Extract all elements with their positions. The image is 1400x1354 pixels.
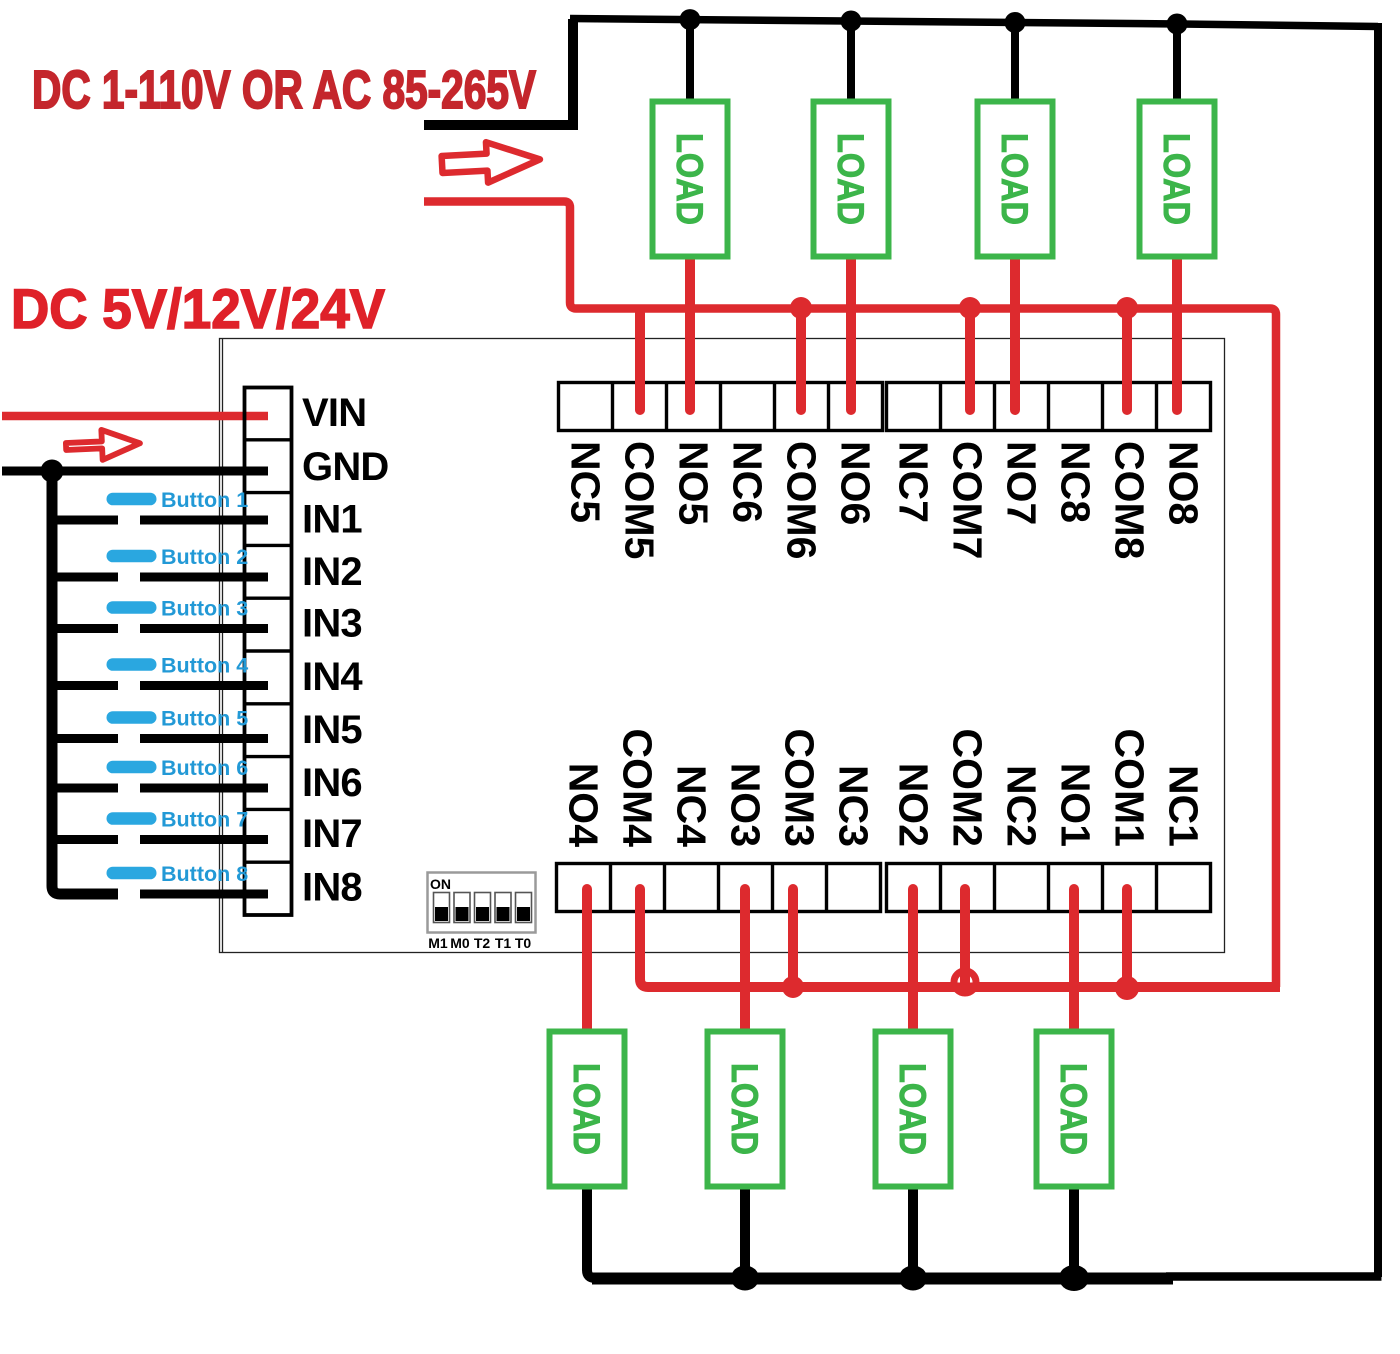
top load group <box>653 9 1215 410</box>
svg-text:Button 1: Button 1 <box>161 488 248 512</box>
svg-text:NO8: NO8 <box>1161 441 1207 525</box>
svg-text:LOAD: LOAD <box>724 1063 765 1155</box>
bottom strip right block outline <box>887 864 1211 912</box>
wire: load L6 to black bus <box>847 21 855 100</box>
wire: black HV supply (short horizontal + left vertical riser) <box>424 19 573 125</box>
wire: red bottom COM bus <box>648 982 1280 992</box>
junction: COM7 dot <box>959 297 981 319</box>
junction: COM3 dot <box>782 976 804 998</box>
arrow: red LV flow arrow <box>65 428 140 461</box>
wire: load L7 to black bus <box>1011 23 1019 101</box>
DIP switch 3 <box>475 893 491 923</box>
bottom strip left block outline <box>557 864 881 912</box>
svg-text:COM1: COM1 <box>1107 729 1153 847</box>
svg-text:Button 7: Button 7 <box>161 808 248 832</box>
left input terminal block <box>244 388 389 916</box>
wire: COM2 down to red bottom bus <box>960 889 970 987</box>
junction: bottom bus dot L3 <box>731 1266 759 1291</box>
junction: COM8 dot <box>1116 297 1138 319</box>
svg-text:IN1: IN1 <box>302 498 362 542</box>
wire: IN6 left segment <box>47 784 118 793</box>
svg-text:VIN: VIN <box>302 391 366 435</box>
top terminal strip <box>559 297 1211 559</box>
load box L5 <box>653 102 728 257</box>
load box L3 <box>708 1032 783 1187</box>
svg-text:IN8: IN8 <box>302 866 362 910</box>
wire: IN2 left segment <box>47 573 118 582</box>
wire: red VIN feed <box>2 412 268 421</box>
svg-text:ON: ON <box>430 876 451 892</box>
svg-text:T2: T2 <box>474 935 491 951</box>
wire: load L4 to black bottom bus (corner) <box>587 1186 610 1278</box>
button B6 pill <box>107 761 157 774</box>
wire: COM3 down to red bottom bus <box>788 889 798 987</box>
wire: red bottom bus segment over COM2 node <box>944 983 988 992</box>
wire: COM6 to red bus <box>796 308 806 410</box>
wire: IN2 right segment <box>140 573 268 582</box>
wire: IN7 left segment <box>47 835 118 844</box>
svg-text:NO5: NO5 <box>671 441 717 525</box>
button rows <box>47 488 268 894</box>
svg-text:NC8: NC8 <box>1053 441 1099 523</box>
button B3 pill <box>107 601 157 614</box>
wire: IN8 right segment <box>140 890 268 899</box>
junction: GND node dot <box>41 460 64 483</box>
svg-text:LOAD: LOAD <box>892 1063 933 1155</box>
DIP switch 5 <box>516 893 532 923</box>
bottom strip left block dividers <box>611 863 827 911</box>
button B4 pill <box>107 658 157 671</box>
svg-text:NC5: NC5 <box>563 441 609 523</box>
button B7 pill <box>107 812 157 825</box>
terminal column outline <box>245 388 292 916</box>
wire: black bottom return bus <box>592 1273 1173 1285</box>
svg-text:NO2: NO2 <box>891 763 937 847</box>
wire: load L8 to NO8 <box>1172 256 1182 410</box>
svg-text:DC 1-110V OR AC 85-265V: DC 1-110V OR AC 85-265V <box>32 60 536 120</box>
junction: bottom bus dot L2 <box>899 1266 927 1291</box>
load box L6 <box>814 102 889 257</box>
board outline <box>220 339 1225 953</box>
svg-text:M1: M1 <box>428 935 448 951</box>
junction: black bus dot L6 <box>841 11 862 32</box>
junction: black bus dot L7 <box>1005 12 1026 33</box>
DIP body <box>428 873 536 933</box>
load box L1 <box>1037 1032 1112 1187</box>
svg-text:NO6: NO6 <box>833 441 879 525</box>
svg-text:COM6: COM6 <box>779 441 825 559</box>
wire: IN5 left segment <box>47 734 118 743</box>
svg-text:LOAD: LOAD <box>994 133 1035 225</box>
svg-text:NO1: NO1 <box>1053 763 1099 847</box>
svg-text:LOAD: LOAD <box>1156 133 1197 225</box>
svg-text:Button 6: Button 6 <box>161 756 248 780</box>
junction: COM1 dot <box>1115 976 1139 1000</box>
wire: COM7 to red bus <box>965 308 975 410</box>
svg-text:NO4: NO4 <box>561 763 607 848</box>
wire: IN1 left segment <box>47 516 118 525</box>
svg-text:Button 4: Button 4 <box>161 654 248 678</box>
wire: COM1 down to red bottom bus <box>1122 889 1132 987</box>
svg-text:NC7: NC7 <box>891 441 937 523</box>
svg-text:COM2: COM2 <box>945 729 991 847</box>
svg-text:Button 5: Button 5 <box>161 707 248 731</box>
svg-text:NO3: NO3 <box>723 763 769 847</box>
arrow: red HV flow arrow <box>441 139 541 185</box>
top strip left block dividers <box>613 382 829 430</box>
wire: red HV supply feeder (horiz, down, across top of board, down right side, bottom bus) <box>424 202 1276 988</box>
svg-text:DC 5V/12V/24V: DC 5V/12V/24V <box>11 277 385 340</box>
terminal dividers <box>244 440 292 862</box>
DIP switch 1 <box>434 893 450 923</box>
top strip right block dividers <box>941 382 1157 430</box>
wire: black HV bus top horizontal and right vertical drop <box>570 19 1378 27</box>
svg-text:LOAD: LOAD <box>566 1063 607 1155</box>
svg-text:M0: M0 <box>450 935 470 951</box>
wire: COM4 down to red bottom bus (corner) <box>640 889 660 987</box>
wire: load L2 to black bottom bus <box>908 1186 918 1278</box>
wire: black GND feed <box>2 467 268 476</box>
wire: black HV right-side vertical drop <box>1374 23 1382 1277</box>
junction: COM2 ring <box>954 971 976 993</box>
wire: IN4 left segment <box>47 681 118 690</box>
svg-text:IN3: IN3 <box>302 602 362 646</box>
DIP switch 4 <box>495 893 511 923</box>
load box L2 <box>876 1032 951 1187</box>
svg-text:NC3: NC3 <box>831 765 877 847</box>
wire: IN6 right segment <box>140 784 268 793</box>
svg-text:IN2: IN2 <box>302 550 362 594</box>
wire: COM8 to red bus <box>1122 308 1132 410</box>
top strip right block outline <box>887 383 1211 431</box>
svg-text:COM5: COM5 <box>617 441 663 559</box>
svg-text:COM3: COM3 <box>777 729 823 847</box>
svg-text:NC4: NC4 <box>669 765 715 847</box>
wire: black bottom return bus right part <box>1166 1272 1382 1281</box>
board inner edge line <box>222 339 224 953</box>
svg-text:LOAD: LOAD <box>669 133 710 225</box>
svg-text:NC6: NC6 <box>725 441 771 523</box>
svg-text:NC1: NC1 <box>1161 765 1207 847</box>
wire: IN4 right segment <box>140 681 268 690</box>
wire: IN3 left segment <box>47 624 118 633</box>
junction: bottom bus dot L1 <box>1059 1265 1089 1291</box>
svg-text:IN4: IN4 <box>302 655 363 699</box>
load box L8 <box>1140 102 1215 257</box>
wire: load L5 to black bus <box>686 20 694 100</box>
svg-text:GND: GND <box>302 445 389 489</box>
bottom terminal strip <box>557 729 1211 1000</box>
wire: NO2 down to load L2 <box>908 889 918 1032</box>
wire: IN8 left segment <box>60 890 118 899</box>
svg-text:COM8: COM8 <box>1107 441 1153 559</box>
wire: NO3 down to load L3 <box>740 889 750 1032</box>
svg-text:NO7: NO7 <box>999 441 1045 525</box>
svg-text:Button 8: Button 8 <box>161 862 248 886</box>
svg-text:IN7: IN7 <box>302 812 362 856</box>
load box L7 <box>978 102 1053 257</box>
svg-text:COM4: COM4 <box>615 729 661 848</box>
junction: black bus dot L8 <box>1167 14 1188 35</box>
wire: IN7 right segment <box>140 835 268 844</box>
svg-text:T0: T0 <box>515 935 532 951</box>
button B2 pill <box>107 550 157 563</box>
svg-text:IN5: IN5 <box>302 708 362 752</box>
wire: load L6 to NO6 <box>846 256 856 410</box>
button B8 pill <box>107 867 157 880</box>
svg-text:LOAD: LOAD <box>830 133 871 225</box>
junction: COM6 dot <box>790 297 812 319</box>
wire: load L7 to NO7 <box>1010 256 1020 410</box>
wire: load L5 to NO5 <box>685 256 695 410</box>
wire: IN3 right segment <box>140 624 268 633</box>
svg-text:IN6: IN6 <box>302 761 362 805</box>
DIP switch SW1 <box>428 873 536 952</box>
wire: load L8 to black bus <box>1173 24 1181 100</box>
DIP switch 2 <box>454 893 470 923</box>
bottom load group <box>550 889 1112 1291</box>
button B1 pill <box>107 493 157 506</box>
wire: GND vertical bus to buttons <box>52 471 118 894</box>
button B5 pill <box>107 711 157 724</box>
wire: IN1 right segment <box>140 516 268 525</box>
svg-text:LOAD: LOAD <box>1053 1063 1094 1155</box>
wire: load L1 to black bottom bus <box>1069 1186 1079 1278</box>
wire: NO4 down to load L4 <box>582 889 592 1032</box>
wire: IN5 right segment <box>140 734 268 743</box>
svg-text:T1: T1 <box>495 935 512 951</box>
bottom strip right block dividers <box>941 863 1157 911</box>
junction: black bus dot L5 <box>680 9 701 30</box>
svg-text:Button 3: Button 3 <box>161 597 248 621</box>
wire: NO1 down to load L1 <box>1069 889 1079 1032</box>
wire: COM5 to red bus <box>635 313 645 410</box>
top strip left block outline <box>559 383 883 431</box>
svg-text:Button 2: Button 2 <box>161 545 248 569</box>
svg-text:COM7: COM7 <box>945 441 991 559</box>
load box L4 <box>550 1032 625 1187</box>
wire: load L3 to black bottom bus <box>740 1186 750 1278</box>
svg-text:NC2: NC2 <box>999 765 1045 847</box>
